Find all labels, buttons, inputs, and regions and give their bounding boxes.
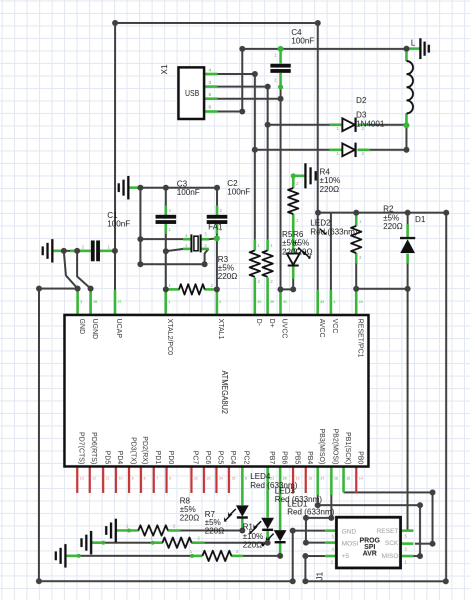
svg-text:MISO: MISO: [382, 553, 399, 560]
svg-text:D-: D-: [255, 319, 262, 327]
svg-text:15: 15: [346, 476, 350, 480]
svg-text:UVCC: UVCC: [281, 319, 288, 339]
svg-text:UCAP: UCAP: [115, 319, 122, 339]
svg-text:L: L: [411, 38, 416, 47]
svg-text:R5: R5: [282, 230, 293, 239]
svg-text:4: 4: [209, 67, 212, 72]
svg-text:17: 17: [320, 476, 324, 480]
svg-text:Red (633nm): Red (633nm): [310, 227, 358, 236]
svg-text:PB3(MISO): PB3(MISO): [318, 429, 325, 465]
svg-text:24: 24: [359, 300, 363, 304]
svg-text:R8: R8: [180, 496, 191, 505]
svg-text:19: 19: [296, 476, 300, 480]
svg-text:3: 3: [209, 80, 212, 85]
svg-text:100nF: 100nF: [177, 188, 200, 197]
svg-text:PB1(SCK): PB1(SCK): [344, 432, 351, 464]
svg-text:4: 4: [333, 300, 335, 304]
svg-text:27: 27: [118, 300, 122, 304]
svg-text:2: 2: [219, 300, 221, 304]
svg-text:AVR: AVR: [363, 548, 378, 557]
svg-text:6: 6: [209, 104, 212, 109]
svg-text:ATMEGA8U2: ATMEGA8U2: [220, 370, 229, 414]
svg-text:25: 25: [232, 476, 236, 480]
svg-text:±10%: ±10%: [243, 532, 264, 541]
svg-text:23: 23: [207, 476, 211, 480]
svg-text:PC2: PC2: [243, 451, 250, 465]
svg-text:PB4: PB4: [306, 451, 313, 464]
svg-text:220Ω: 220Ω: [205, 527, 225, 536]
svg-text:18: 18: [308, 476, 312, 480]
svg-text:220Ω: 220Ω: [180, 514, 200, 523]
svg-text:C1: C1: [107, 211, 118, 220]
svg-text:±10%: ±10%: [320, 176, 341, 185]
svg-text:D3: D3: [356, 110, 367, 119]
svg-text:100nF: 100nF: [107, 220, 130, 229]
svg-text:GND: GND: [342, 529, 357, 536]
svg-text:PC4: PC4: [229, 451, 236, 465]
svg-text:R4: R4: [320, 168, 331, 177]
svg-text:VCC: VCC: [331, 319, 338, 334]
svg-text:USB: USB: [185, 88, 199, 98]
svg-text:220Ω: 220Ω: [383, 222, 403, 231]
svg-text:PB7: PB7: [268, 451, 275, 464]
svg-text:21: 21: [270, 476, 274, 480]
svg-text:XTAL2/PC0: XTAL2/PC0: [166, 319, 173, 356]
svg-text:29: 29: [270, 300, 274, 304]
svg-text:±5%: ±5%: [293, 239, 309, 248]
svg-text:1: 1: [168, 300, 170, 304]
svg-text:PD1: PD1: [154, 451, 161, 465]
svg-text:PD3(TX): PD3(TX): [129, 437, 136, 464]
svg-text:PD0: PD0: [167, 451, 174, 465]
svg-text:PD2(RX): PD2(RX): [141, 436, 148, 464]
svg-text:X1: X1: [160, 64, 169, 74]
svg-text:PD4: PD4: [116, 451, 123, 465]
svg-text:LED2: LED2: [310, 219, 331, 228]
svg-text:7: 7: [156, 476, 158, 480]
svg-text:32: 32: [320, 300, 324, 304]
svg-text:24: 24: [219, 476, 223, 480]
svg-text:PD7(CTS): PD7(CTS): [77, 432, 84, 464]
svg-text:UGND: UGND: [91, 319, 98, 340]
svg-text:14: 14: [359, 476, 363, 480]
svg-text:31: 31: [283, 300, 287, 304]
svg-text:9: 9: [132, 476, 134, 480]
svg-text:MOSI: MOSI: [342, 541, 359, 548]
svg-text:RESET: RESET: [377, 528, 399, 535]
svg-text:PC7: PC7: [192, 451, 199, 465]
svg-text:GND: GND: [78, 319, 85, 335]
svg-text:PC5: PC5: [217, 451, 224, 465]
svg-text:11: 11: [106, 476, 110, 480]
svg-text:R2: R2: [383, 205, 394, 214]
svg-text:D1: D1: [415, 215, 426, 224]
svg-text:PB6: PB6: [280, 451, 287, 464]
svg-text:D+: D+: [268, 319, 275, 328]
svg-text:PB0: PB0: [356, 451, 363, 464]
svg-text:13: 13: [80, 476, 84, 480]
svg-text:16: 16: [334, 476, 338, 480]
svg-text:5: 5: [209, 92, 212, 97]
svg-text:±5%: ±5%: [383, 213, 399, 222]
svg-text:12: 12: [92, 476, 96, 480]
svg-text:R6: R6: [293, 230, 304, 239]
svg-text:28: 28: [93, 300, 97, 304]
svg-text:±5%: ±5%: [218, 263, 234, 272]
svg-text:5: 5: [245, 476, 247, 480]
svg-text:PB2(MOSI): PB2(MOSI): [332, 429, 339, 465]
svg-text:100nF: 100nF: [291, 37, 314, 46]
svg-text:R1: R1: [243, 523, 254, 532]
svg-text:220Ω: 220Ω: [243, 541, 263, 550]
svg-text:20: 20: [283, 476, 287, 480]
svg-text:AVCC: AVCC: [318, 319, 325, 338]
svg-text:C4: C4: [291, 28, 302, 37]
svg-text:Red (633nm): Red (633nm): [287, 508, 335, 517]
svg-text:LED4: LED4: [250, 472, 271, 481]
svg-text:J1: J1: [316, 571, 325, 580]
svg-text:XTAL1: XTAL1: [217, 319, 224, 340]
svg-text:SCK: SCK: [385, 540, 399, 547]
svg-text:RESET/PC1: RESET/PC1: [356, 319, 363, 358]
svg-text:220Ω: 220Ω: [218, 272, 238, 281]
svg-text:+5: +5: [342, 553, 350, 560]
svg-text:8: 8: [144, 476, 146, 480]
svg-text:220Ω: 220Ω: [293, 247, 313, 256]
svg-text:220Ω: 220Ω: [320, 185, 340, 194]
svg-text:100nF: 100nF: [227, 187, 250, 196]
svg-text:PD6(RTS): PD6(RTS): [90, 432, 97, 464]
svg-text:1N4001: 1N4001: [356, 120, 385, 129]
svg-text:6: 6: [169, 476, 171, 480]
svg-text:3: 3: [80, 300, 82, 304]
svg-text:22: 22: [194, 476, 198, 480]
svg-text:10: 10: [119, 476, 123, 480]
svg-text:D2: D2: [356, 96, 367, 105]
svg-text:PD5: PD5: [103, 451, 110, 465]
svg-text:PC6: PC6: [204, 451, 211, 465]
svg-text:PB5: PB5: [293, 451, 300, 464]
svg-text:30: 30: [257, 300, 261, 304]
